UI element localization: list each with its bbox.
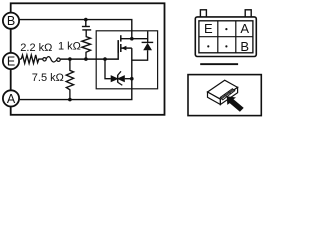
node dot on A wire [68, 98, 72, 102]
MOSFET Q1 channel top bar [120, 35, 122, 41]
pin dot top middle [225, 28, 227, 30]
resistor 1 kohm (vertical zigzag) [82, 30, 91, 59]
connector tab right [245, 10, 251, 17]
terminal B [3, 13, 19, 29]
MOSFET Q1 channel bottom bar [120, 44, 122, 52]
inner component box [96, 31, 157, 89]
terminal E [3, 53, 19, 69]
wire B: from terminal B right then down to MOSFET drain [19, 20, 132, 39]
coupling circle 1 [43, 58, 46, 61]
zener ZD top tick [118, 71, 121, 75]
MOSFET drain node [130, 37, 134, 41]
relay body left face [208, 92, 221, 105]
svg-text:A: A [240, 21, 249, 36]
connector grid vertical divider 1 [217, 21, 219, 53]
relay connector grid lines [221, 89, 234, 98]
wavy link [46, 57, 57, 62]
pin dot bottom middle [225, 45, 227, 47]
svg-text:A: A [7, 92, 16, 106]
node junction on B wire [84, 18, 88, 22]
MOSFET Q1 drain wire [121, 38, 148, 40]
terminal A [3, 90, 19, 106]
node dot zener-source [130, 77, 134, 81]
connector grid horizontal divider [199, 36, 253, 38]
connector outer shell [195, 17, 256, 57]
relay body top face [208, 80, 238, 99]
svg-text:7.5 kΩ: 7.5 kΩ [32, 72, 64, 84]
MOSFET Q1 source arrow [121, 46, 126, 51]
connector grid vertical divider 2 [235, 21, 237, 53]
diode D1 cathode bar [142, 41, 154, 43]
zener ZD left lead [105, 59, 111, 79]
connector tab left [200, 10, 206, 17]
capacitor C1 lead [85, 20, 87, 26]
component photo box [188, 75, 261, 116]
svg-text:B: B [7, 14, 15, 28]
zener ZD right triangle [117, 75, 125, 82]
resistor 2.2 kohm (horizontal zigzag) [21, 55, 43, 64]
diode D1 top lead [147, 31, 149, 42]
pin dot bottom left [207, 45, 209, 47]
zener ZD bar [117, 75, 119, 83]
MOSFET Q1 source wire [121, 47, 132, 49]
node dots on E wire [68, 57, 72, 61]
svg-text:B: B [240, 39, 249, 54]
diode D1 triangle [143, 43, 152, 50]
relay connector grid outline [220, 89, 235, 100]
connector inner frame [199, 21, 253, 53]
wire A: from MOSFET source down then left to terminal A [20, 48, 132, 100]
location arrow [227, 96, 244, 111]
svg-text:E: E [7, 55, 15, 69]
svg-text:2.2 kΩ: 2.2 kΩ [20, 42, 52, 54]
zener ZD bottom tick [118, 82, 123, 85]
svg-text:E: E [204, 21, 213, 36]
wire E to gate corner [60, 40, 118, 59]
outer circuit box [11, 3, 165, 115]
diode D1 anode lead [132, 50, 148, 60]
zener ZD right lead [125, 78, 132, 80]
MOSFET Q1 gate bar [117, 40, 119, 53]
relay body right face [220, 87, 237, 104]
zener ZD left triangle [111, 75, 119, 82]
svg-text:1 kΩ: 1 kΩ [58, 41, 81, 53]
black divider bar [200, 63, 238, 65]
wire E horizontal [20, 58, 22, 60]
resistor 7.5 kohm (vertical zigzag) [66, 59, 73, 100]
coupling circle 2 [57, 58, 60, 61]
capacitor C1 plates [82, 26, 90, 28]
